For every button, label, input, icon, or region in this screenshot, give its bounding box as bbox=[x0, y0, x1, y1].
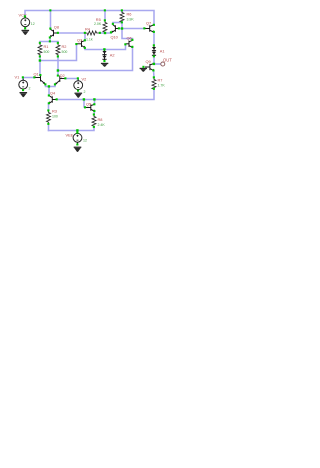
wire A1 to OUT node bbox=[153, 56, 155, 64]
transistor Q4 mirrored bbox=[49, 96, 57, 104]
svg-text:12: 12 bbox=[31, 22, 35, 26]
svg-text:A1: A1 bbox=[160, 49, 165, 54]
transistor Q6 bbox=[125, 40, 132, 47]
svg-text:Q4: Q4 bbox=[50, 90, 56, 95]
transistor Q1 bbox=[34, 75, 44, 84]
wire OUT node to port bbox=[154, 63, 161, 65]
resistor R4 horizontal bbox=[85, 31, 99, 35]
resistor R8 bbox=[92, 115, 96, 127]
wire Q8 collector drop bbox=[49, 10, 51, 28]
svg-text:Q9: Q9 bbox=[145, 59, 150, 64]
voltage source VCC V2 bbox=[18, 12, 34, 28]
wire Q8 emitter to load rail bbox=[49, 37, 51, 41]
svg-text:Q7: Q7 bbox=[146, 20, 151, 25]
transistor Q10 mirrored bbox=[112, 25, 119, 33]
svg-text:R3: R3 bbox=[52, 109, 57, 114]
ground at Q9 base bbox=[140, 68, 147, 72]
ground under V2 bbox=[74, 93, 82, 98]
svg-text:Q10: Q10 bbox=[111, 34, 119, 39]
resistor R5 bbox=[103, 21, 107, 32]
resistor R3 bbox=[46, 111, 50, 124]
wire tail junction to Q4 collector bbox=[48, 86, 50, 95]
port OUT bbox=[161, 62, 165, 66]
wire Q9 emitter to R7 bbox=[152, 70, 155, 77]
transistor Q5 mirrored diode connected bbox=[85, 104, 94, 111]
wire R3 column Q4 emitter bbox=[47, 103, 49, 130]
wire R4 right to Q10 emitter bbox=[100, 32, 111, 34]
svg-text:R4: R4 bbox=[85, 27, 91, 32]
svg-text:Q3: Q3 bbox=[77, 37, 82, 42]
transistor Q2 bbox=[55, 75, 65, 84]
wire R2 bottom to Q2 collector bbox=[57, 56, 59, 75]
svg-text:VEE: VEE bbox=[65, 132, 73, 137]
resistor R1 bbox=[38, 43, 42, 56]
wire VEE stub bbox=[76, 130, 78, 133]
transistor Q9 bbox=[145, 64, 154, 71]
wire V1 to Q1 base bbox=[23, 77, 34, 80]
wire VCC top rail bbox=[25, 10, 154, 24]
svg-text:R7: R7 bbox=[157, 77, 162, 82]
wire diff pair emitters junction bbox=[45, 84, 55, 86]
transistor Q7 bbox=[144, 25, 153, 32]
wire mirror base rail Q10 to Q7 bbox=[119, 27, 144, 29]
wire Q7 emitter to A1 bbox=[153, 32, 155, 45]
svg-text:500: 500 bbox=[62, 50, 68, 54]
diode pair A1 bbox=[152, 46, 156, 57]
wire Q3 collector stub bbox=[84, 33, 86, 41]
transistor Q8 bbox=[50, 29, 58, 37]
resistor R2 bbox=[56, 43, 60, 56]
svg-text:R8: R8 bbox=[98, 117, 103, 122]
wire Q5 emitter to R8 bbox=[93, 111, 96, 115]
svg-text:Q8: Q8 bbox=[54, 24, 59, 29]
svg-text:A2: A2 bbox=[110, 52, 115, 57]
svg-text:12: 12 bbox=[83, 138, 87, 142]
wire R8 bottom to VEE rail bbox=[48, 127, 93, 130]
svg-text:1.1k: 1.1k bbox=[86, 37, 93, 41]
voltage source V2 bbox=[74, 76, 86, 94]
svg-text:R6: R6 bbox=[127, 11, 132, 16]
wire Q8 base to R4 bbox=[58, 32, 85, 34]
resistor R7 bbox=[152, 78, 156, 89]
svg-text:2.0K: 2.0K bbox=[94, 22, 102, 26]
wire Q5 collector stub bbox=[93, 99, 95, 104]
resistor R6 bbox=[120, 11, 124, 21]
svg-text:2: 2 bbox=[83, 90, 85, 94]
svg-text:Q1: Q1 bbox=[33, 71, 38, 76]
svg-text:V1: V1 bbox=[15, 74, 20, 79]
ground under V1 bbox=[19, 92, 27, 97]
wire Q3 emitter rail to Q6 base bbox=[85, 44, 126, 49]
junction and terminal dots bbox=[22, 9, 155, 145]
wire load rail R1 R2 tops bbox=[40, 41, 58, 43]
svg-text:2.4K: 2.4K bbox=[98, 123, 106, 127]
wire R6 bottom column bbox=[122, 22, 132, 40]
svg-text:V2: V2 bbox=[81, 76, 86, 81]
svg-text:1.7K: 1.7K bbox=[157, 83, 165, 87]
svg-text:500: 500 bbox=[43, 50, 49, 54]
ground under VCC bbox=[21, 30, 29, 35]
svg-text:3.9K: 3.9K bbox=[127, 17, 135, 21]
voltage source VEE bbox=[65, 132, 86, 144]
wire Q5 base loop bbox=[84, 99, 85, 107]
wire Q10 collector jog to R6 bottom bbox=[113, 22, 122, 24]
ground under VEE bbox=[74, 147, 82, 152]
svg-text:2: 2 bbox=[29, 86, 31, 90]
wire R5 top bbox=[104, 10, 106, 20]
diode pair A2 bbox=[102, 50, 106, 61]
transistor Q3 bbox=[76, 41, 84, 48]
svg-text:R2: R2 bbox=[62, 44, 67, 49]
svg-text:OUT: OUT bbox=[163, 57, 172, 62]
wire R6 top stub bbox=[121, 10, 123, 12]
svg-text:Q2: Q2 bbox=[60, 73, 65, 78]
svg-text:Q5: Q5 bbox=[86, 102, 91, 107]
wire V2 to Q2 base bbox=[65, 78, 78, 80]
svg-text:Q6: Q6 bbox=[127, 35, 132, 40]
wire node B long feedback to Q6 emitter bbox=[58, 47, 132, 70]
voltage source V1 bbox=[15, 74, 31, 90]
wire R1 bottom to Q1 collector bbox=[39, 56, 41, 74]
svg-text:R1: R1 bbox=[43, 44, 48, 49]
wire R7 bottom long rail to Q4 base bbox=[57, 89, 154, 100]
ground under A2 bbox=[101, 63, 108, 67]
wire node A to Q3 base bbox=[40, 44, 76, 61]
svg-text:100: 100 bbox=[52, 115, 58, 119]
